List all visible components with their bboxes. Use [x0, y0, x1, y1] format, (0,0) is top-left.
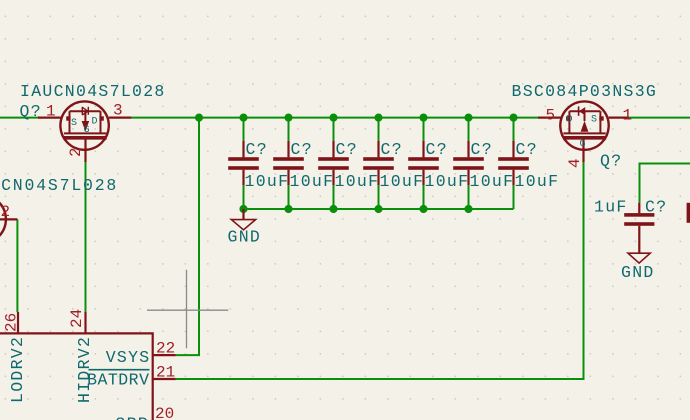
junction (333.5,209) [329, 205, 337, 213]
wire Q1 gate down to pin24 [85, 162, 87, 312]
transistor Q1 [20, 82, 166, 162]
pin 3 (D) stub [109, 116, 132, 118]
svg-text:21: 21 [156, 363, 175, 381]
wire BATDRV pin21 to Q2 gate [176, 162, 584, 379]
pin name letters [71, 117, 98, 137]
svg-text:1uF: 1uF [594, 198, 628, 217]
transistor Q3 (partial, off-screen left) [0, 176, 118, 244]
svg-text:4: 4 [566, 158, 584, 168]
internals [563, 111, 605, 133]
junction (378.5,117.6) [374, 114, 382, 122]
junction (288.5,117.6) [284, 114, 292, 122]
junction (243.5,117.6) [239, 114, 247, 122]
wire left into Q1 pin1 [0, 117, 38, 119]
svg-text:SRP: SRP [115, 414, 149, 420]
pin 22 stub [153, 354, 176, 356]
gate pin stub down [84, 138, 86, 162]
capacitor C1 10uF [228, 118, 259, 210]
wire main rail Q1 pin3 to Q2 pin5 [131, 117, 538, 119]
capacitor C7 10uF [498, 118, 529, 210]
IC U1 outline [0, 309, 176, 420]
capacitor labels [245, 140, 560, 191]
channel arrow (down) [82, 121, 90, 131]
wire left FET gate down to pin26 [16, 219, 18, 312]
svg-text:G: G [580, 139, 586, 150]
pin squares [566, 116, 570, 120]
svg-text:Q?: Q? [20, 102, 42, 121]
svg-text:1: 1 [46, 103, 56, 121]
svg-text:10uF: 10uF [515, 172, 560, 191]
svg-text:GND: GND [228, 228, 262, 247]
ground GND (right) [621, 253, 655, 282]
svg-text:VSYS: VSYS [106, 348, 151, 367]
svg-text:10uF: 10uF [335, 172, 380, 191]
capacitor C2 10uF [273, 118, 304, 210]
svg-text:C?: C? [516, 140, 538, 159]
capacitor C3 10uF [318, 118, 349, 210]
junction (288.5,209) [284, 205, 292, 213]
body diode [82, 107, 88, 115]
wire Q2 pin1 to right edge [629, 117, 690, 119]
channel arrow (up) [581, 121, 589, 132]
pin 1 (S) stub [38, 116, 61, 118]
svg-text:C?: C? [246, 140, 268, 159]
svg-text:10uF: 10uF [380, 172, 425, 191]
pin 26 [17, 312, 19, 333]
svg-text:BATDRV: BATDRV [87, 371, 149, 390]
junction (513.5,117.6) [509, 114, 517, 122]
svg-text:2: 2 [1, 203, 11, 221]
gate pin stub down [582, 138, 584, 162]
junction (243.5,209) [239, 205, 247, 213]
body diode (filled, pointing left) [578, 106, 580, 115]
capacitor C8 1uF [594, 198, 667, 254]
junction (468.5,209) [464, 205, 472, 213]
capacitor C5 10uF [408, 118, 439, 210]
junction (423.5,209) [419, 205, 427, 213]
capacitor C6 10uF [453, 118, 484, 210]
junction (333.5,117.6) [329, 114, 337, 122]
pin 21 stub [153, 378, 176, 380]
pin squares [66, 116, 70, 120]
junction (468.5,117.6) [464, 114, 472, 122]
junction (423.5,117.6) [419, 114, 427, 122]
svg-text:GND: GND [621, 263, 655, 282]
svg-text:26: 26 [3, 313, 21, 332]
pin 24 [84, 312, 86, 333]
svg-text:22: 22 [156, 339, 175, 357]
capacitor C9 (clipped at right edge) [687, 203, 690, 223]
svg-text:C?: C? [426, 140, 448, 159]
junction (378.5,209) [374, 205, 382, 213]
svg-text:D: D [92, 117, 98, 128]
gate pin stub right [0, 218, 17, 220]
svg-text:20: 20 [155, 405, 174, 420]
svg-text:BSC084P03NS3G: BSC084P03NS3G [512, 82, 658, 101]
svg-text:IAUCN04S7L028: IAUCN04S7L028 [0, 176, 118, 195]
svg-text:C?: C? [645, 198, 667, 217]
svg-text:10uF: 10uF [245, 172, 290, 191]
capacitor C4 10uF [363, 118, 394, 210]
svg-text:5: 5 [546, 107, 556, 125]
svg-text:D: D [567, 115, 573, 126]
svg-text:2: 2 [67, 147, 85, 157]
svg-text:3: 3 [113, 102, 123, 120]
svg-text:G: G [84, 125, 90, 136]
svg-text:C?: C? [291, 140, 313, 159]
svg-text:IAUCN04S7L028: IAUCN04S7L028 [20, 82, 166, 101]
svg-text:10uF: 10uF [290, 172, 335, 191]
wire right vcc branch y163 [640, 164, 690, 203]
ground GND (cap bank) [228, 209, 262, 247]
junction (199,117.6) [195, 114, 203, 122]
wire VSYS branch down to pin22 [176, 118, 199, 356]
pin 1 (S) stub [609, 116, 629, 118]
svg-text:10uF: 10uF [470, 172, 515, 191]
svg-text:C?: C? [381, 140, 403, 159]
svg-text:10uF: 10uF [425, 172, 470, 191]
internals [64, 111, 106, 133]
svg-text:C?: C? [336, 140, 358, 159]
svg-text:1: 1 [623, 107, 633, 125]
svg-text:Q?: Q? [600, 152, 622, 171]
gate bar [563, 136, 606, 140]
pin 5 (D) stub [538, 116, 561, 118]
svg-text:24: 24 [68, 309, 86, 328]
pin name letters [567, 115, 598, 151]
svg-text:C?: C? [471, 140, 493, 159]
wire bottom cap rail [244, 208, 514, 210]
transistor Q2 [512, 82, 658, 171]
svg-text:S: S [591, 115, 597, 126]
svg-text:LODRV2: LODRV2 [8, 336, 27, 403]
svg-text:S: S [71, 118, 77, 129]
gate bar [64, 136, 107, 140]
